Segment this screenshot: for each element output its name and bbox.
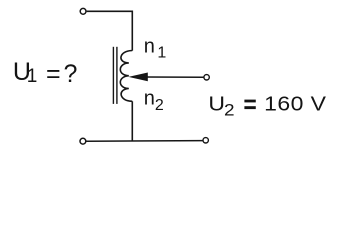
bottom rail wire bbox=[86, 140, 203, 143]
terminal T4 (bottom right) bbox=[203, 138, 208, 143]
svg-text:n2: n2 bbox=[144, 88, 164, 114]
tap arrowhead bbox=[128, 73, 147, 82]
tap arrow wire bbox=[146, 76, 204, 78]
svg-text:U2 = 160 V: U2 = 160 V bbox=[208, 92, 326, 120]
terminal T3 (bottom left) bbox=[80, 138, 86, 144]
label U2 = 160 V bbox=[208, 92, 326, 120]
svg-text:n1: n1 bbox=[144, 35, 167, 61]
wire from winding bottom to bottom rail bbox=[131, 101, 133, 141]
equals sign bars of U2 label bbox=[244, 100, 255, 103]
svg-text:U1 = ?: U1 = ? bbox=[13, 58, 77, 88]
terminal T1 (top left) bbox=[80, 8, 86, 14]
transformer winding L1 (coil with humps) bbox=[120, 51, 132, 102]
transformer core (two parallel bars) bbox=[112, 47, 114, 104]
terminal T2 (tap, right) bbox=[204, 75, 209, 80]
wire from T1 to transformer top bbox=[87, 11, 133, 50]
